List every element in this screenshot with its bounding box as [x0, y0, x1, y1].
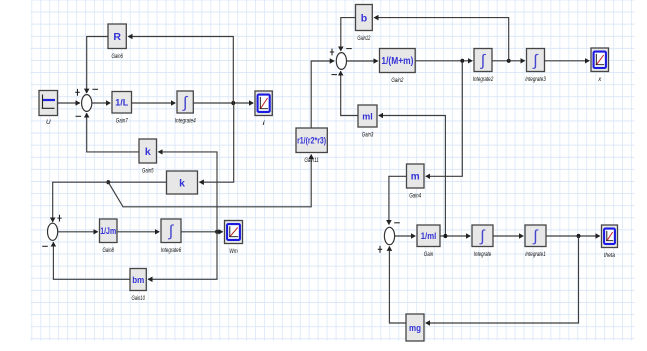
svg-text:Gain12: Gain12: [357, 35, 370, 42]
scope Wm: [225, 221, 243, 256]
svg-text:ml: ml: [362, 111, 373, 122]
gain k (Gain5): [139, 139, 157, 175]
svg-text:Gain3: Gain3: [362, 132, 374, 139]
gain m (Gain4): [407, 164, 425, 200]
node Wm junction: [215, 230, 219, 234]
gain 1/(M+m) (Gain2): [380, 49, 416, 85]
sum junction (rotor): [42, 215, 62, 247]
wire Gain5 to sum bottom (back emf): [87, 113, 139, 152]
wire Integrate6 to scope Wm: [181, 231, 223, 233]
svg-text:theta: theta: [604, 252, 615, 259]
gain k (torque const): [167, 171, 198, 194]
node torque junction: [106, 180, 110, 184]
svg-text:r1/(r2*r3): r1/(r2*r3): [297, 135, 326, 145]
svg-text:1/(M+m): 1/(M+m): [381, 56, 413, 67]
svg-text:Integrate3: Integrate3: [525, 76, 546, 83]
svg-text:Integrate2: Integrate2: [473, 76, 494, 83]
wire mg to pend sum bottom: [389, 247, 406, 324]
wire Integrate2 to Integrate3: [492, 60, 525, 62]
wire velocity to b feedback: [374, 18, 509, 61]
node theta junction: [577, 234, 581, 238]
gain mg: [406, 314, 424, 341]
wire i down to gain k2: [200, 103, 234, 182]
gain b (Gain12): [356, 5, 373, 43]
scope i: [255, 91, 272, 127]
wire b to sum top: [341, 18, 356, 51]
svg-text:Gain: Gain: [424, 251, 434, 258]
node x-vel junction: [507, 59, 511, 63]
integrator Integrate1: [525, 225, 546, 258]
svg-text:Gain8: Gain8: [102, 247, 114, 254]
gain r1/(r2*r3) (Gain11): [296, 128, 327, 164]
svg-text:Gain11: Gain11: [304, 157, 319, 164]
integrator Integrate6: [161, 219, 182, 254]
svg-text:Gain10: Gain10: [131, 295, 145, 302]
wire 1/ml to Integrate: [440, 235, 470, 237]
svg-text:k: k: [179, 177, 185, 189]
wire ml to sum bottom: [341, 71, 358, 115]
integrator Integrate2: [473, 49, 494, 84]
wire sum to Gain7: [92, 102, 110, 104]
svg-text:U: U: [46, 119, 51, 126]
wire torque to Gain11 (diagonal): [108, 155, 311, 207]
wire k2 to Wm sum top: [53, 182, 167, 222]
svg-text:Gain4: Gain4: [409, 193, 421, 200]
svg-text:bm: bm: [132, 275, 144, 286]
wire bm to rotor sum bottom: [53, 242, 130, 279]
wire Integrate1 to scope theta: [546, 235, 600, 237]
sum junction (pendulum): [378, 223, 400, 253]
gain ml (Gain3): [358, 105, 377, 139]
wire Integrate4 to scope i: [193, 102, 253, 104]
integrator Integrate3: [525, 49, 546, 84]
svg-text:1/Jm: 1/Jm: [100, 226, 116, 236]
svg-text:b: b: [361, 12, 367, 24]
gain 1/L (Gain7): [112, 92, 132, 125]
step source U: [39, 91, 58, 127]
wire 1/Jm to Integrate6: [117, 231, 159, 233]
wire x-accel to m: [426, 61, 463, 177]
svg-text:m: m: [411, 172, 420, 183]
wire rotor sum to 1/Jm: [58, 231, 98, 233]
wire Gain11 up to cart sum: [311, 61, 334, 128]
wire Gain7 to Integrate4: [132, 102, 176, 104]
wire Integrate to Integrate1: [493, 235, 523, 237]
wire i to R feedback: [128, 37, 233, 104]
svg-text:R: R: [113, 31, 121, 43]
gain bm (Gain10): [130, 269, 146, 303]
svg-text:Gain6: Gain6: [111, 53, 123, 60]
svg-text:Integrate: Integrate: [474, 251, 492, 258]
svg-text:mg: mg: [409, 323, 421, 334]
wire Wm down to bm: [148, 232, 217, 279]
svg-text:Integrate1: Integrate1: [525, 251, 546, 258]
svg-text:Wm: Wm: [229, 248, 238, 255]
scope theta: [602, 225, 618, 259]
svg-text:1/L: 1/L: [115, 98, 128, 109]
wire theta-accel to ml: [379, 116, 446, 237]
wire Integrate3 to scope x: [545, 60, 590, 62]
svg-text:Integrate6: Integrate6: [161, 247, 182, 254]
node x-accel junction: [460, 59, 464, 63]
scope x: [591, 48, 609, 83]
wire Gain2 to Integrate2: [415, 60, 472, 62]
svg-text:k: k: [145, 146, 151, 158]
integrator Integrate: [472, 225, 493, 258]
wire Wm up to Gain5: [158, 152, 217, 232]
wire pend sum to 1/ml: [395, 235, 416, 237]
gain R (Gain6): [108, 24, 126, 60]
wire sum to Gain2: [347, 60, 378, 62]
node i junction: [231, 101, 235, 105]
svg-text:Gain7: Gain7: [116, 118, 128, 125]
svg-text:1/ml: 1/ml: [421, 231, 437, 242]
svg-text:Gain2: Gain2: [391, 77, 403, 84]
wire theta to mg feedback: [426, 236, 579, 323]
wire U to sum: [58, 102, 80, 104]
integrator Integrate4: [175, 91, 196, 125]
wire R to sum top: [87, 37, 108, 94]
gain 1/ml (Gain): [417, 225, 440, 258]
gain 1/Jm (Gain8): [100, 219, 118, 254]
svg-text:Integrate4: Integrate4: [175, 118, 196, 125]
sum junction (electrical loop): [75, 89, 98, 116]
node theta-accel junction: [444, 234, 448, 238]
sum junction (cart force): [330, 49, 352, 75]
wire m to pend sum top: [389, 176, 407, 224]
svg-text:Gain5: Gain5: [142, 168, 154, 175]
